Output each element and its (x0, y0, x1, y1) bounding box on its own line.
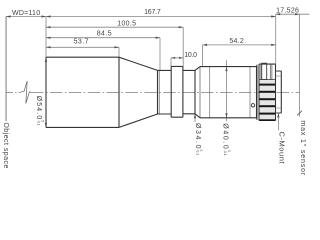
svg-text:max 1" sensor: max 1" sensor (299, 120, 306, 175)
svg-text:17.526: 17.526 (276, 8, 299, 15)
svg-text:Ø40.0: Ø40.0 (222, 123, 229, 149)
svg-text:Ø54.0: Ø54.0 (35, 96, 42, 120)
svg-text:167.7: 167.7 (144, 9, 161, 16)
svg-text:84.5: 84.5 (97, 31, 112, 38)
svg-text:10.0: 10.0 (184, 52, 197, 59)
svg-text:-0.1: -0.1 (223, 150, 227, 156)
svg-text:54.2: 54.2 (229, 38, 243, 45)
svg-text:-0.1: -0.1 (37, 120, 41, 126)
svg-text:53.7: 53.7 (74, 39, 89, 46)
svg-text:C-Mount: C-Mount (278, 132, 287, 165)
svg-text:Ø34.0: Ø34.0 (194, 123, 201, 149)
svg-text:100.5: 100.5 (117, 21, 136, 28)
svg-text:-0.1: -0.1 (195, 150, 199, 156)
svg-text:WD=110: WD=110 (12, 10, 40, 17)
svg-text:Object space: Object space (2, 122, 9, 168)
